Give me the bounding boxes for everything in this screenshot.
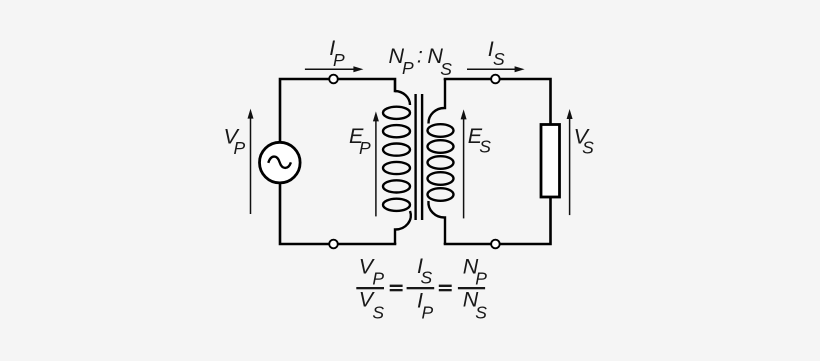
svg-text:P: P	[402, 58, 414, 78]
label IS	[488, 37, 505, 69]
transformer core	[416, 94, 423, 220]
arrow: VP voltage	[248, 109, 254, 214]
label EP	[349, 124, 371, 158]
resistor: load	[541, 125, 560, 198]
arrow: EP emf	[373, 111, 379, 216]
wire: secondary bottom	[445, 197, 551, 244]
svg-text:P: P	[372, 268, 384, 288]
arrow: VS voltage	[567, 109, 573, 215]
node: secondary bottom	[491, 240, 500, 249]
svg-text:S: S	[475, 302, 487, 322]
arrow: IP current	[305, 66, 364, 72]
svg-text:S: S	[479, 137, 491, 157]
label NP:NS ratio	[389, 44, 453, 79]
label ES	[468, 124, 492, 157]
svg-text:S: S	[440, 59, 452, 79]
node: primary bottom	[329, 240, 338, 249]
arrow: ES emf	[461, 109, 467, 218]
svg-text:S: S	[421, 267, 433, 287]
svg-text:P: P	[422, 302, 434, 322]
arrow: IS current	[467, 66, 525, 72]
primary winding (6 turns)	[383, 91, 411, 244]
svg-text:P: P	[359, 138, 371, 158]
node: primary top	[329, 75, 338, 84]
wire: secondary top	[445, 79, 551, 125]
secondary winding (5 turns)	[428, 79, 454, 244]
svg-text:P: P	[234, 138, 246, 158]
svg-text:S: S	[493, 49, 505, 69]
label IP	[329, 36, 345, 70]
svg-text:S: S	[372, 302, 384, 322]
label VS	[574, 124, 595, 157]
svg-text::: :	[417, 44, 423, 68]
eq equals 1	[390, 285, 403, 287]
label VP	[224, 125, 246, 159]
svg-text:P: P	[475, 268, 487, 288]
equation VP/VS = IS/IP = NP/NS	[356, 254, 487, 323]
node: secondary top	[491, 75, 500, 84]
wire: primary top	[280, 79, 395, 143]
svg-text:P: P	[333, 50, 345, 70]
ac source VP	[260, 142, 301, 183]
eq equals 2	[439, 285, 452, 287]
svg-text:S: S	[582, 137, 594, 157]
wire: primary bottom	[280, 183, 395, 244]
